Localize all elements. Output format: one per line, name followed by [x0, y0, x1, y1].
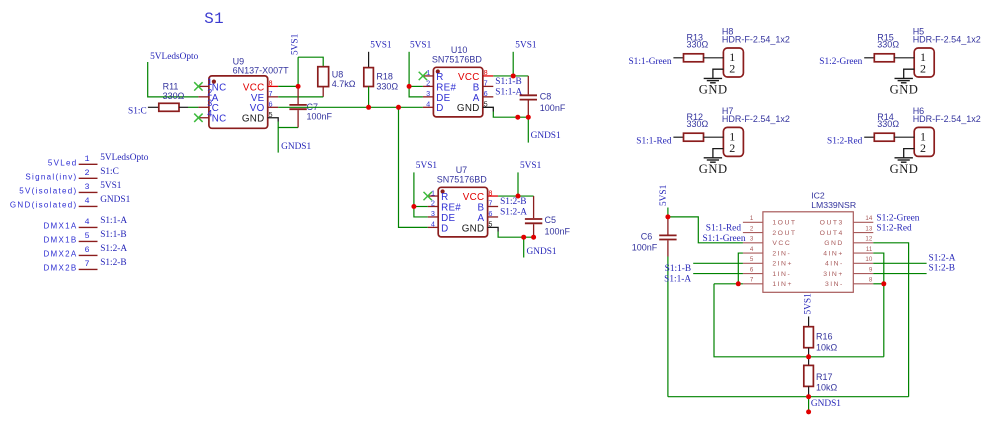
svg-text:7: 7 — [84, 259, 89, 269]
svg-text:5VS1: 5VS1 — [659, 184, 669, 206]
svg-text:6N137-X007T: 6N137-X007T — [233, 65, 290, 75]
svg-text:A: A — [473, 93, 480, 104]
svg-text:3IN-: 3IN- — [825, 281, 844, 288]
svg-text:R17: R17 — [816, 372, 833, 382]
svg-text:U10: U10 — [451, 45, 468, 55]
svg-text:3: 3 — [426, 91, 430, 99]
svg-text:5VS1: 5VS1 — [370, 40, 392, 50]
svg-text:NC: NC — [212, 82, 227, 93]
svg-text:RE#: RE# — [436, 82, 456, 93]
svg-text:5: 5 — [484, 102, 488, 110]
svg-text:GND: GND — [242, 114, 265, 125]
svg-text:5VS1: 5VS1 — [515, 40, 537, 50]
svg-text:2: 2 — [729, 61, 735, 75]
svg-text:GND: GND — [457, 103, 480, 114]
svg-text:B: B — [478, 202, 485, 213]
svg-text:HDR-F-2.54_1x2: HDR-F-2.54_1x2 — [722, 114, 790, 124]
svg-text:5VS1: 5VS1 — [520, 161, 542, 171]
svg-text:330Ω: 330Ω — [687, 119, 709, 129]
svg-text:2: 2 — [84, 168, 89, 178]
svg-text:5VS1: 5VS1 — [290, 33, 300, 55]
svg-text:GND: GND — [699, 162, 728, 176]
svg-text:10: 10 — [865, 256, 872, 263]
svg-text:B: B — [473, 82, 480, 93]
svg-text:8: 8 — [869, 277, 873, 284]
svg-text:8: 8 — [488, 190, 492, 198]
svg-text:GND(isolated): GND(isolated) — [10, 200, 78, 209]
svg-text:1IN-: 1IN- — [772, 271, 791, 278]
svg-text:Signal(inv): Signal(inv) — [25, 172, 77, 181]
svg-text:IC2: IC2 — [811, 191, 825, 201]
svg-text:HDR-F-2.54_1x2: HDR-F-2.54_1x2 — [722, 35, 790, 45]
svg-text:7: 7 — [484, 81, 488, 89]
svg-text:S1:C: S1:C — [128, 107, 147, 117]
svg-text:GNDS1: GNDS1 — [100, 195, 130, 205]
svg-text:1OUT: 1OUT — [772, 220, 796, 227]
svg-text:4: 4 — [426, 102, 430, 110]
svg-text:7: 7 — [488, 201, 492, 209]
svg-text:S1:2-Green: S1:2-Green — [819, 57, 862, 67]
svg-text:330Ω: 330Ω — [687, 40, 709, 50]
svg-text:330Ω: 330Ω — [877, 119, 899, 129]
svg-text:7: 7 — [268, 91, 272, 99]
svg-text:7: 7 — [750, 277, 754, 284]
svg-text:GNDS1: GNDS1 — [281, 142, 311, 152]
svg-text:12: 12 — [865, 236, 872, 243]
svg-text:S1:1-A: S1:1-A — [664, 274, 691, 284]
svg-text:S1:2-A: S1:2-A — [929, 253, 956, 263]
svg-text:5: 5 — [750, 256, 754, 263]
svg-text:DMX2B: DMX2B — [43, 263, 77, 272]
svg-text:OUT4: OUT4 — [820, 230, 844, 237]
svg-text:S1:2-B: S1:2-B — [500, 197, 526, 207]
svg-text:RE#: RE# — [441, 202, 461, 213]
svg-text:100nF: 100nF — [632, 242, 658, 252]
svg-text:S1: S1 — [204, 10, 224, 28]
svg-text:OUT3: OUT3 — [820, 220, 844, 227]
svg-text:R11: R11 — [163, 81, 179, 91]
svg-text:S1:2-B: S1:2-B — [929, 264, 955, 274]
svg-text:2: 2 — [920, 141, 926, 155]
svg-text:R: R — [436, 72, 443, 83]
svg-text:S1:1-Red: S1:1-Red — [706, 224, 742, 234]
svg-text:VCC: VCC — [772, 240, 791, 247]
svg-text:S1:C: S1:C — [100, 167, 119, 177]
svg-text:13: 13 — [865, 225, 872, 232]
svg-text:SN75176BD: SN75176BD — [437, 175, 488, 185]
svg-text:S1:1-Red: S1:1-Red — [636, 137, 672, 147]
svg-text:GND: GND — [890, 83, 919, 97]
svg-text:GND: GND — [699, 83, 728, 97]
svg-text:4: 4 — [750, 246, 754, 253]
svg-text:4: 4 — [84, 196, 89, 206]
svg-text:3: 3 — [84, 182, 89, 192]
svg-text:S1:2-Green: S1:2-Green — [876, 213, 919, 223]
svg-text:C: C — [212, 103, 219, 114]
svg-text:6: 6 — [268, 102, 272, 110]
svg-text:GNDS1: GNDS1 — [527, 247, 557, 257]
svg-text:DE: DE — [441, 213, 455, 224]
svg-text:5VLedsOpto: 5VLedsOpto — [100, 153, 149, 163]
svg-text:C5: C5 — [545, 215, 557, 225]
svg-text:GND: GND — [462, 223, 485, 234]
svg-text:U8: U8 — [332, 70, 344, 80]
svg-text:8: 8 — [484, 70, 488, 78]
svg-text:U7: U7 — [456, 165, 468, 175]
svg-text:VCC: VCC — [243, 82, 265, 93]
svg-text:S1:1-B: S1:1-B — [665, 264, 691, 274]
svg-text:HDR-F-2.54_1x2: HDR-F-2.54_1x2 — [913, 35, 981, 45]
svg-text:330Ω: 330Ω — [163, 91, 185, 101]
svg-text:1: 1 — [750, 215, 754, 222]
svg-text:2OUT: 2OUT — [772, 230, 796, 237]
svg-text:6: 6 — [484, 91, 488, 99]
svg-text:VCC: VCC — [463, 192, 485, 203]
svg-text:5VS1: 5VS1 — [100, 181, 122, 191]
svg-text:100nF: 100nF — [540, 103, 566, 113]
svg-text:S1:1-A: S1:1-A — [100, 216, 127, 226]
svg-text:2: 2 — [426, 81, 430, 89]
svg-text:VO: VO — [250, 103, 265, 114]
svg-text:GNDS1: GNDS1 — [531, 131, 561, 141]
svg-text:330Ω: 330Ω — [877, 40, 899, 50]
svg-text:14: 14 — [865, 215, 872, 222]
svg-text:5: 5 — [488, 222, 492, 230]
svg-text:C8: C8 — [540, 91, 552, 101]
svg-text:330Ω: 330Ω — [376, 82, 398, 92]
svg-text:6: 6 — [750, 266, 754, 273]
svg-text:4IN+: 4IN+ — [823, 250, 844, 257]
svg-text:5VS1: 5VS1 — [410, 40, 432, 50]
svg-text:4IN-: 4IN- — [825, 261, 844, 268]
svg-text:4.7kΩ: 4.7kΩ — [332, 79, 356, 89]
svg-text:3: 3 — [750, 236, 754, 243]
svg-text:S1:1-A: S1:1-A — [495, 87, 522, 97]
svg-text:S1:2-B: S1:2-B — [100, 258, 126, 268]
svg-text:VCC: VCC — [458, 72, 480, 83]
svg-text:S1:1-Green: S1:1-Green — [702, 234, 745, 244]
svg-text:S1:2-A: S1:2-A — [500, 207, 527, 217]
svg-text:D: D — [436, 103, 443, 114]
svg-text:100nF: 100nF — [307, 111, 333, 121]
svg-text:NC: NC — [212, 114, 227, 125]
svg-text:1IN+: 1IN+ — [772, 281, 793, 288]
svg-text:R16: R16 — [816, 332, 833, 342]
svg-text:C6: C6 — [641, 232, 653, 242]
svg-text:5: 5 — [84, 231, 89, 241]
svg-text:10kΩ: 10kΩ — [816, 383, 838, 393]
svg-text:LM339NSR: LM339NSR — [811, 200, 856, 210]
svg-text:4: 4 — [431, 222, 435, 230]
svg-text:R: R — [441, 192, 448, 203]
svg-text:1: 1 — [84, 154, 89, 164]
svg-text:A: A — [478, 213, 485, 224]
svg-text:GND: GND — [890, 162, 919, 176]
svg-text:HDR-F-2.54_1x2: HDR-F-2.54_1x2 — [913, 114, 981, 124]
svg-text:DE: DE — [436, 93, 450, 104]
svg-text:D: D — [441, 223, 448, 234]
svg-text:R18: R18 — [376, 72, 393, 82]
svg-text:S1:2-Red: S1:2-Red — [827, 137, 863, 147]
svg-text:5VLedsOpto: 5VLedsOpto — [150, 52, 199, 62]
svg-text:DMX2A: DMX2A — [43, 249, 77, 258]
svg-text:5VLed: 5VLed — [48, 158, 78, 167]
svg-text:DMX1A: DMX1A — [43, 221, 77, 230]
svg-text:9: 9 — [869, 266, 873, 273]
svg-text:DMX1B: DMX1B — [43, 235, 77, 244]
svg-text:GNDS1: GNDS1 — [811, 399, 841, 409]
svg-text:2IN+: 2IN+ — [772, 261, 793, 268]
svg-text:S1:1-B: S1:1-B — [100, 230, 126, 240]
svg-text:10kΩ: 10kΩ — [816, 342, 838, 352]
svg-text:S1:1-B: S1:1-B — [495, 77, 521, 87]
svg-text:6: 6 — [84, 245, 89, 255]
svg-text:5VS1: 5VS1 — [803, 293, 813, 315]
svg-text:2: 2 — [750, 225, 754, 232]
svg-text:A: A — [212, 93, 219, 104]
svg-text:3: 3 — [431, 211, 435, 219]
svg-text:5V(isolated): 5V(isolated) — [19, 186, 77, 195]
svg-text:2: 2 — [920, 61, 926, 75]
svg-text:4: 4 — [84, 217, 89, 227]
svg-text:11: 11 — [866, 246, 873, 253]
svg-text:S1:2-Red: S1:2-Red — [876, 224, 912, 234]
svg-text:100nF: 100nF — [545, 226, 571, 236]
svg-text:2: 2 — [431, 201, 435, 209]
svg-text:GND: GND — [824, 240, 844, 247]
svg-text:2: 2 — [729, 141, 735, 155]
svg-text:3IN+: 3IN+ — [823, 271, 844, 278]
svg-text:VE: VE — [251, 93, 265, 104]
svg-text:SN75176BD: SN75176BD — [432, 55, 483, 65]
svg-text:2IN-: 2IN- — [772, 250, 791, 257]
svg-text:8: 8 — [268, 81, 272, 89]
svg-text:5: 5 — [268, 112, 272, 120]
svg-text:S1:1-Green: S1:1-Green — [628, 57, 671, 67]
svg-text:5VS1: 5VS1 — [416, 161, 438, 171]
svg-text:S1:2-A: S1:2-A — [100, 244, 127, 254]
svg-text:6: 6 — [488, 211, 492, 219]
